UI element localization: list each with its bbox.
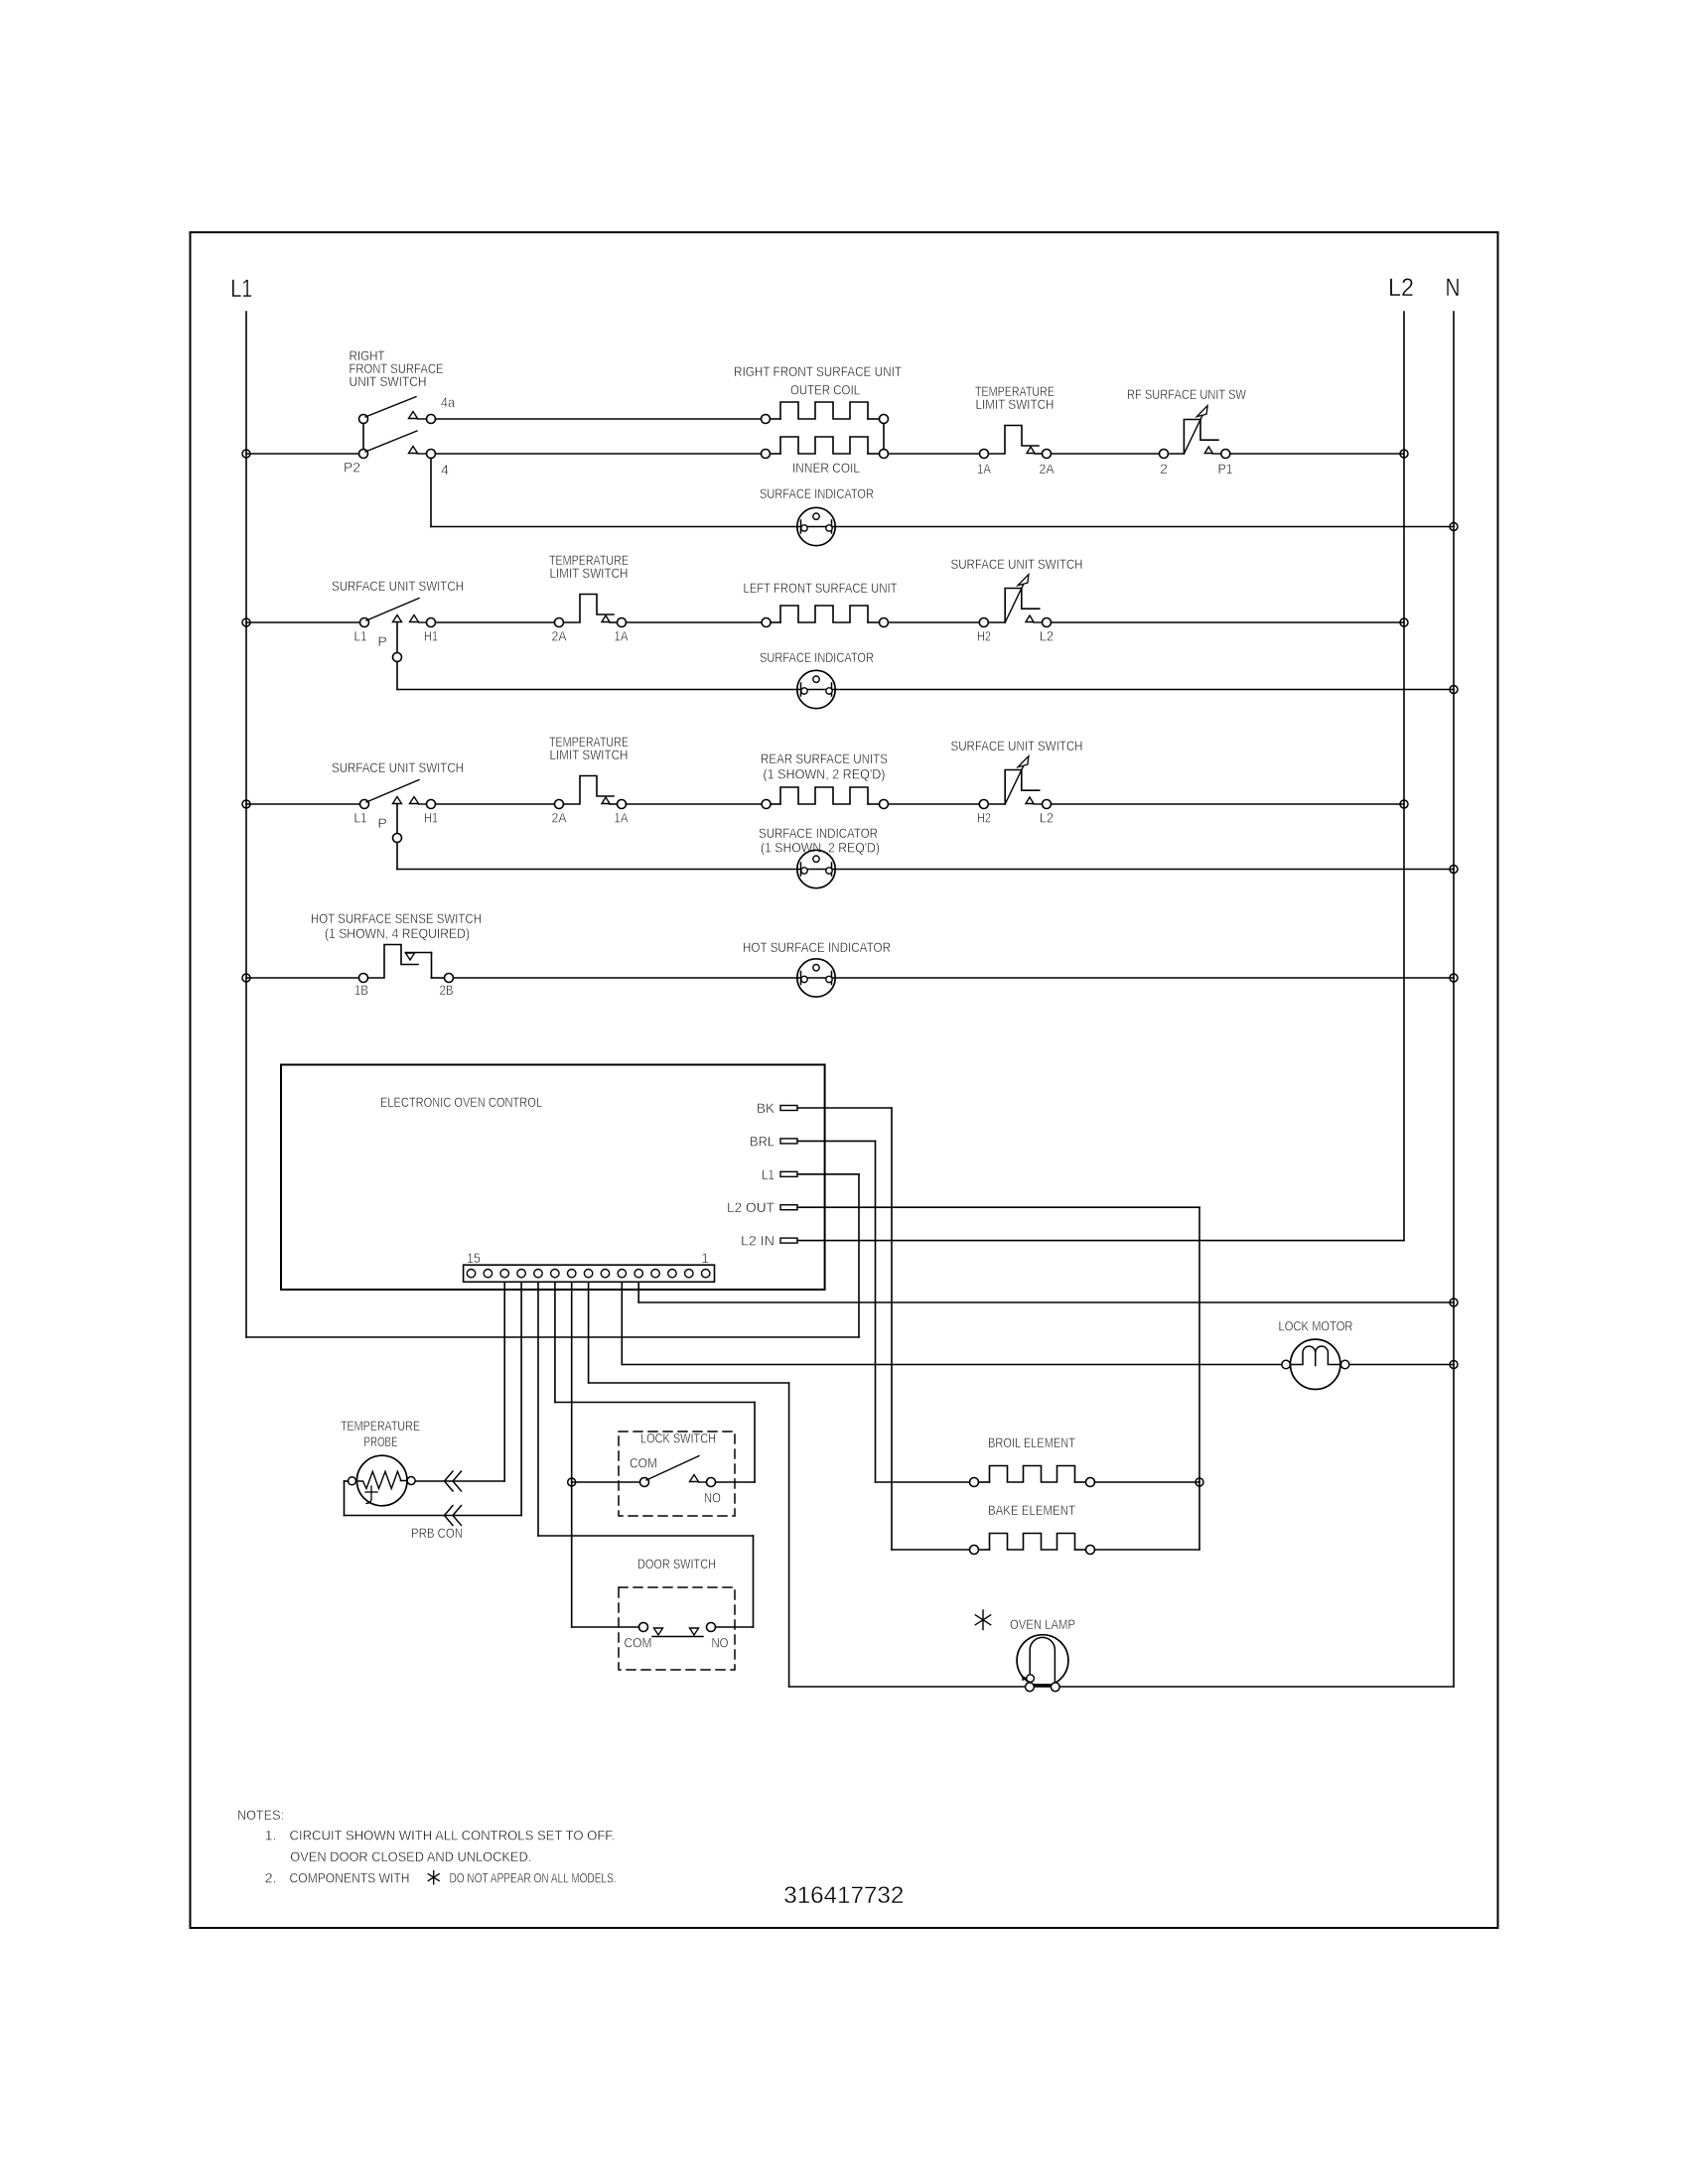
svg-text:INNER COIL: INNER COIL — [792, 460, 860, 476]
svg-text:LOCK MOTOR: LOCK MOTOR — [1279, 1318, 1353, 1334]
svg-text:LIMIT SWITCH: LIMIT SWITCH — [976, 396, 1055, 412]
connector J1 hole 11 — [534, 1270, 542, 1278]
wire L1 to switch L1 contact row3 — [246, 803, 360, 805]
door switch S9 COM contact — [639, 1623, 648, 1632]
node junction lock motor at N rail — [1450, 1361, 1458, 1369]
surface indicator lamp - row1 — [797, 507, 835, 545]
wire J1 pin to N rail — [637, 1282, 639, 1302]
switch S6 contact L2 — [1043, 800, 1052, 809]
temperature limit switch contact circle pin 1A — [618, 800, 627, 809]
temperature limit switch contact circle pin 2A — [1043, 450, 1052, 459]
svg-text:DO NOT APPEAR ON ALL MODELS.: DO NOT APPEAR ON ALL MODELS. — [450, 1869, 617, 1885]
node junction at N rail for J1 wire — [1450, 1298, 1458, 1306]
svg-text:SURFACE UNIT SWITCH: SURFACE UNIT SWITCH — [951, 556, 1083, 572]
connector J1 hole 2 — [685, 1270, 693, 1278]
wire J1 pin to lock switch NO — [554, 1282, 556, 1402]
wire BRL pin to broil element — [797, 1140, 876, 1142]
svg-text:L1: L1 — [230, 275, 252, 303]
switch S7 contact 2B — [445, 974, 454, 983]
lock switch S8 COM contact — [640, 1478, 649, 1487]
pin stub L2 IN of U1 — [780, 1238, 797, 1243]
svg-text:NO: NO — [704, 1490, 721, 1506]
svg-text:BROIL ELEMENT: BROIL ELEMENT — [988, 1434, 1075, 1450]
svg-text:L2: L2 — [1040, 628, 1054, 644]
heater R5 broil element — [970, 1478, 979, 1487]
wire L1 rail bottom horizontal to EOC L1 pin — [246, 1336, 859, 1338]
svg-text:OVEN DOOR CLOSED AND UNLOCKED.: OVEN DOOR CLOSED AND UNLOCKED. — [290, 1848, 531, 1864]
wire L2 contact to L2 rail — [1052, 621, 1405, 623]
switch S5 blade — [366, 780, 419, 803]
thermistor RT1 temperature arrow mark — [365, 1491, 377, 1493]
wire node 4 down to surface indicator — [430, 459, 432, 527]
node junction row2 at L2 rail — [1400, 618, 1408, 626]
connector J1 hole 9 — [568, 1270, 576, 1278]
temperature limit switch contact marker triangle — [1027, 447, 1035, 454]
lamp DS1 base arrow mark — [1023, 1677, 1027, 1681]
svg-text:4: 4 — [441, 462, 449, 478]
motor M1 lock motor body — [1291, 1339, 1340, 1389]
wire 4 to inner coil — [436, 453, 762, 455]
pin stub L2 OUT of U1 — [780, 1205, 797, 1210]
wire junction to lock switch COM — [572, 1481, 640, 1483]
wire stub to right contact — [1035, 453, 1043, 455]
svg-text:2A: 2A — [1040, 461, 1055, 477]
surface indicator lamp - row3 — [797, 850, 835, 887]
svg-text:SURFACE UNIT SWITCH: SURFACE UNIT SWITCH — [951, 738, 1083, 753]
connector chevrons PRB CON lower — [445, 1506, 462, 1526]
node junction L1 to hot surface sense switch — [242, 974, 250, 982]
svg-text:L2: L2 — [1040, 810, 1054, 826]
heater R2 inner coil — [762, 450, 771, 459]
rotary switch frame — [1184, 420, 1218, 455]
wire P tap down to indicator row3 — [396, 804, 398, 834]
wire 1A to left front coil — [627, 621, 763, 623]
temperature limit switch contact circle pin 1A — [618, 618, 627, 627]
electronic oven control U1 box — [281, 1065, 825, 1291]
terminal circle P tap row3 — [393, 834, 402, 843]
svg-text:SURFACE INDICATOR: SURFACE INDICATOR — [760, 649, 874, 665]
switch S1 contact 4a — [427, 415, 436, 424]
switch S3 blade — [366, 599, 419, 621]
svg-text:1B: 1B — [354, 982, 368, 998]
rotary switch wiper arrow — [1006, 578, 1027, 621]
connector J1 hole 3 — [668, 1270, 676, 1278]
thermistor RT1 resistor zigzag — [356, 1471, 408, 1488]
svg-text:2B: 2B — [440, 982, 454, 998]
door switch S9 actuator bar — [652, 1636, 703, 1638]
wire J1 pin to temperature probe (lower) — [520, 1282, 522, 1515]
asterisk mark for oven lamp — [975, 1610, 990, 1630]
lock switch S8 blade — [646, 1456, 699, 1481]
wire BK pin to bake element — [797, 1107, 892, 1109]
wire H1 to limit switch 2A row3 — [436, 803, 555, 805]
wire 4a to outer coil — [436, 418, 762, 420]
connector J1 hole 6 — [618, 1270, 626, 1278]
svg-text:L1: L1 — [354, 628, 367, 644]
wire L2 IN pin to L2 rail — [797, 1240, 1404, 1242]
wire coil to switch H2 row3 — [889, 803, 980, 805]
wire 2B to hot surface indicator to N rail — [454, 977, 1455, 979]
wire bake element to L2 OUT leg — [1095, 1549, 1200, 1551]
wire oven lamp line to N rail bottom — [789, 1686, 1454, 1688]
lock switch S8 dashed enclosure — [619, 1432, 735, 1516]
switch S3 surface unit switch pivot L1 — [360, 618, 369, 627]
svg-text:DOOR SWITCH: DOOR SWITCH — [637, 1556, 716, 1571]
svg-text:BK: BK — [757, 1100, 775, 1116]
switch S5 contact H1 — [427, 800, 436, 809]
rotary switch wiper arrow — [1006, 759, 1027, 803]
lock switch S8 NO contact — [707, 1478, 716, 1487]
connector J1 hole 7 — [601, 1270, 609, 1278]
switch S3 contact H1 — [427, 618, 436, 627]
door switch S9 dashed enclosure — [619, 1587, 735, 1670]
svg-text:LIMIT SWITCH: LIMIT SWITCH — [550, 747, 629, 762]
svg-text:COM: COM — [625, 1635, 652, 1651]
svg-text:NOTES:: NOTES: — [237, 1807, 284, 1823]
svg-text:OVEN LAMP: OVEN LAMP — [1010, 1616, 1075, 1632]
svg-text:ELECTRONIC OVEN CONTROL: ELECTRONIC OVEN CONTROL — [380, 1094, 542, 1110]
heater R6 bake element — [970, 1546, 979, 1555]
wire L1 to 1B — [246, 977, 359, 979]
svg-text:BAKE ELEMENT: BAKE ELEMENT — [988, 1502, 1075, 1518]
svg-text:CIRCUIT SHOWN WITH ALL CONTROL: CIRCUIT SHOWN WITH ALL CONTROLS SET TO O… — [290, 1828, 616, 1843]
switch S3 contact marker triangles — [393, 615, 402, 622]
heater R1 outer coil — [762, 415, 771, 424]
temperature limit switch body — [564, 595, 615, 623]
svg-text:1A: 1A — [615, 810, 630, 826]
node junction L1 to row2 switch — [242, 618, 250, 626]
switch S1 contact 4 — [427, 450, 436, 459]
wire broil element to L2 OUT leg — [1095, 1481, 1200, 1483]
connector J1 hole 10 — [551, 1270, 559, 1278]
svg-text:L1: L1 — [762, 1166, 774, 1182]
temperature limit switch body — [989, 426, 1040, 455]
temperature limit switch contact circle pin 2A — [555, 618, 564, 627]
svg-text:REAR SURFACE UNITS: REAR SURFACE UNITS — [761, 751, 888, 766]
wire link outer-inner coil right ends — [883, 424, 885, 450]
connector J1 terminal strip of U1 — [464, 1265, 715, 1282]
switch S2 contact marker triangle — [1204, 447, 1212, 454]
node junction lock switch COM tap — [568, 1478, 576, 1486]
svg-text:LIMIT SWITCH: LIMIT SWITCH — [550, 565, 629, 581]
svg-text:UNIT SWITCH: UNIT SWITCH — [350, 373, 427, 389]
wire stub to right contact — [610, 621, 618, 623]
wire inner coil to limit switch 1A — [889, 453, 980, 455]
svg-text:TEMPERATURE: TEMPERATURE — [341, 1418, 420, 1433]
temperature limit switch contact circle pin 1A — [980, 450, 989, 459]
svg-text:P2: P2 — [344, 460, 360, 476]
wire P tap down to indicator row2 — [396, 622, 398, 653]
switch S2 contact P1 — [1221, 450, 1230, 459]
svg-text:1: 1 — [701, 1250, 709, 1266]
wire P1 to L2 rail — [1230, 453, 1404, 455]
wire stub to right contact — [610, 803, 618, 805]
svg-text:RF SURFACE UNIT SW: RF SURFACE UNIT SW — [1127, 386, 1247, 402]
lamp DS1 terminals — [1026, 1683, 1035, 1692]
node junction L1 to row3 switch — [242, 800, 250, 808]
switch S6 contact marker triangle — [1026, 797, 1034, 804]
connector J1 hole 5 — [634, 1270, 642, 1278]
rotary switch wiper arrow — [1185, 409, 1205, 453]
switch S4 surface unit switch contact H2 — [979, 618, 988, 627]
switch S1 right front surface unit switch pivot P2 — [359, 450, 368, 459]
svg-text:(1 SHOWN, 4 REQUIRED): (1 SHOWN, 4 REQUIRED) — [325, 925, 470, 941]
svg-text:316417732: 316417732 — [783, 1882, 904, 1909]
switch S7 hot surface sense switch body — [368, 945, 419, 979]
svg-text:P1: P1 — [1218, 461, 1233, 477]
svg-text:LOCK SWITCH: LOCK SWITCH — [640, 1431, 716, 1446]
wire probe left terminal loop — [345, 1480, 349, 1482]
wire J1 pin to temperature probe (upper) — [503, 1282, 505, 1481]
surface indicator lamp - hot surface — [797, 959, 835, 997]
switch S7 contact marker triangle — [406, 953, 415, 960]
svg-text:H1: H1 — [424, 628, 438, 644]
node junction row3 indicator at N rail — [1450, 866, 1458, 874]
svg-text:L2 OUT: L2 OUT — [727, 1199, 774, 1215]
svg-text:L2: L2 — [1388, 274, 1414, 302]
node junction row1 indicator at N rail — [1450, 523, 1458, 531]
svg-text:COMPONENTS WITH: COMPONENTS WITH — [290, 1869, 410, 1885]
svg-text:LEFT FRONT SURFACE UNIT: LEFT FRONT SURFACE UNIT — [744, 580, 898, 596]
svg-text:SURFACE INDICATOR: SURFACE INDICATOR — [760, 485, 874, 501]
svg-text:2.: 2. — [265, 1869, 277, 1885]
svg-text:H2: H2 — [977, 628, 991, 644]
connector J1 hole 12 — [517, 1270, 525, 1278]
thermistor RT1 terminals — [349, 1477, 356, 1485]
node junction hot surface indicator at N rail — [1450, 974, 1458, 982]
svg-text:N: N — [1446, 274, 1461, 302]
svg-text:H1: H1 — [424, 810, 438, 826]
lamp DS1 oven lamp bulb — [1017, 1635, 1068, 1687]
svg-text:HOT SURFACE INDICATOR: HOT SURFACE INDICATOR — [743, 939, 891, 955]
pin stub L1 of U1 — [780, 1171, 797, 1176]
svg-text:2A: 2A — [552, 810, 568, 826]
switch S6 surface unit switch contact H2 — [979, 800, 988, 809]
wire lock motor to N rail — [1349, 1364, 1454, 1366]
rotary switch frame — [1005, 770, 1039, 805]
svg-text:H2: H2 — [977, 810, 991, 826]
switch S5 surface unit switch pivot L1 — [360, 800, 369, 809]
svg-text:L2 IN: L2 IN — [741, 1233, 774, 1249]
svg-text:SURFACE UNIT SWITCH: SURFACE UNIT SWITCH — [332, 578, 464, 594]
svg-text:HOT SURFACE SENSE SWITCH: HOT SURFACE SENSE SWITCH — [311, 910, 482, 926]
node junction L1 to right front surface unit switch — [242, 450, 250, 458]
connector J1 hole 8 — [584, 1270, 592, 1278]
connector J1 hole 1 — [701, 1270, 709, 1278]
node junction row3 at L2 rail — [1400, 800, 1408, 808]
door switch S9 actuator triangles — [654, 1628, 663, 1635]
wire L1 rail vertical — [245, 312, 247, 1337]
connector J1 hole 4 — [651, 1270, 659, 1278]
svg-text:SURFACE UNIT SWITCH: SURFACE UNIT SWITCH — [332, 759, 464, 775]
wire surface indicator row1 to N rail — [431, 526, 1454, 528]
svg-text:2A: 2A — [552, 628, 568, 644]
wire 2A to RF switch contact 2 — [1052, 453, 1160, 455]
svg-text:L1: L1 — [354, 810, 367, 826]
wire J1 pin to door switch NO — [537, 1282, 539, 1536]
svg-text:P: P — [377, 633, 386, 649]
wire J1 pin to lock switch COM and door switch COM — [571, 1282, 573, 1627]
wire surface indicator row3 to N rail — [397, 869, 1454, 871]
svg-text:1.: 1. — [265, 1828, 277, 1843]
wire L1 to switch L1 contact — [246, 621, 360, 623]
svg-text:4a: 4a — [441, 394, 455, 410]
wire L2 OUT pin to elements right side — [797, 1206, 1199, 1208]
wire 1A to rear coil — [627, 803, 763, 805]
svg-text:1A: 1A — [615, 628, 630, 644]
temperature limit switch contact marker triangle — [602, 615, 610, 622]
switch S1 upper blade — [365, 397, 416, 417]
svg-text:BRL: BRL — [750, 1133, 774, 1149]
wire L1 pin down to L1 rail — [797, 1173, 859, 1175]
connector J1 hole 14 — [484, 1270, 492, 1278]
switch S4 contact L2 — [1043, 618, 1052, 627]
switch S7 hot surface sense switch contact 1B — [359, 974, 368, 983]
drawing border frame — [191, 232, 1498, 1928]
surface indicator lamp - row2 — [797, 670, 835, 708]
wire surface indicator row2 to N rail — [397, 689, 1454, 691]
switch S5 contact marker triangles — [393, 797, 402, 804]
lamp DS1 filament — [1030, 1637, 1055, 1684]
switch S1 contact marker triangles — [409, 412, 418, 419]
heater R3 left front surface unit — [762, 618, 771, 627]
motor M1 terminals — [1282, 1360, 1290, 1368]
rotary switch frame — [1005, 589, 1039, 623]
wire L2 contact to L2 rail row3 — [1052, 803, 1405, 805]
thermistor RT1 temperature probe body — [356, 1455, 407, 1506]
wire coil to switch H2 — [889, 621, 980, 623]
svg-text:2: 2 — [1160, 461, 1168, 477]
switch S1 lower blade — [365, 431, 417, 452]
svg-text:COM: COM — [630, 1455, 657, 1471]
svg-text:(1 SHOWN, 2 REQ'D): (1 SHOWN, 2 REQ'D) — [764, 766, 886, 782]
temperature limit switch contact marker triangle — [602, 797, 610, 804]
switch S4 contact marker triangle — [1026, 615, 1034, 622]
connector chevrons PRB CON upper — [445, 1471, 462, 1491]
heater R4 rear surface unit — [762, 800, 771, 809]
svg-text:15: 15 — [467, 1250, 481, 1266]
asterisk mark in note 2 — [428, 1871, 439, 1884]
pin stub BK of U1 — [780, 1106, 797, 1111]
wire H1 to limit switch 2A — [436, 621, 555, 623]
svg-text:1A: 1A — [977, 461, 992, 477]
temperature limit switch body — [564, 776, 615, 805]
svg-text:PRB CON: PRB CON — [411, 1525, 463, 1541]
svg-text:(1 SHOWN, 2 REQ'D): (1 SHOWN, 2 REQ'D) — [761, 840, 880, 856]
node junction row2 indicator at N rail — [1450, 686, 1458, 694]
connector J1 hole 13 — [500, 1270, 508, 1278]
svg-text:OUTER COIL: OUTER COIL — [790, 382, 860, 398]
pin stub BRL of U1 — [780, 1139, 797, 1144]
wire L2 rail vertical — [1403, 312, 1405, 1241]
switch S2 RF surface unit sw contact 2 — [1160, 450, 1169, 459]
wire down leg to door switch COM — [572, 1626, 639, 1628]
svg-text:PROBE: PROBE — [364, 1433, 398, 1449]
connector J1 hole 15 — [467, 1270, 475, 1278]
wire J1 pin to lock motor — [621, 1282, 623, 1364]
node junction row1 at L2 rail — [1400, 450, 1408, 458]
svg-text:P: P — [377, 815, 386, 831]
wire J1 pin to oven lamp — [588, 1282, 590, 1383]
wire L1 to switch P2 — [246, 453, 359, 455]
temperature limit switch contact circle pin 2A — [555, 800, 564, 809]
terminal circle P tap row2 — [393, 653, 402, 662]
node junction broil at L2 OUT leg — [1196, 1478, 1203, 1486]
svg-text:NO: NO — [712, 1635, 729, 1651]
lock switch S8 contact marker triangle — [690, 1475, 699, 1482]
svg-text:RIGHT FRONT SURFACE UNIT: RIGHT FRONT SURFACE UNIT — [734, 363, 902, 379]
door switch S9 NO contact — [707, 1623, 716, 1632]
wire N rail vertical — [1453, 312, 1455, 1687]
motor M1 winding — [1290, 1346, 1340, 1365]
